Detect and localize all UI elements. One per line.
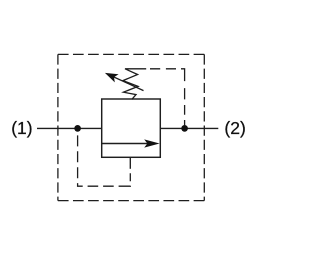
svg-text:(2): (2) (224, 118, 245, 138)
outer dashed envelope right (203, 54, 205, 200)
junction dot at port 2 (181, 125, 188, 132)
main flow line from port 1 to valve box (37, 127, 102, 129)
pilot line from spring to port 2 (dashed) (150, 69, 185, 125)
internal flow arrow shaft (102, 143, 148, 145)
svg-text:(1): (1) (11, 118, 32, 138)
outer dashed envelope bottom (58, 200, 204, 202)
outer dashed envelope left (57, 54, 59, 200)
solid stub below valve box (129, 157, 131, 169)
main flow line from valve box to port 2 (160, 127, 218, 129)
spring (zigzag) with top lead (123, 69, 146, 100)
adjustment arrowhead (105, 73, 119, 83)
internal flow arrowhead (144, 139, 159, 147)
pilot line from port 1 to valve bottom (dashed) (78, 133, 131, 186)
valve body box (102, 99, 161, 157)
adjustment arrow shaft through spring (110, 75, 144, 91)
junction dot at port 1 (74, 125, 81, 132)
outer dashed envelope (cartridge boundary) top (58, 53, 204, 55)
